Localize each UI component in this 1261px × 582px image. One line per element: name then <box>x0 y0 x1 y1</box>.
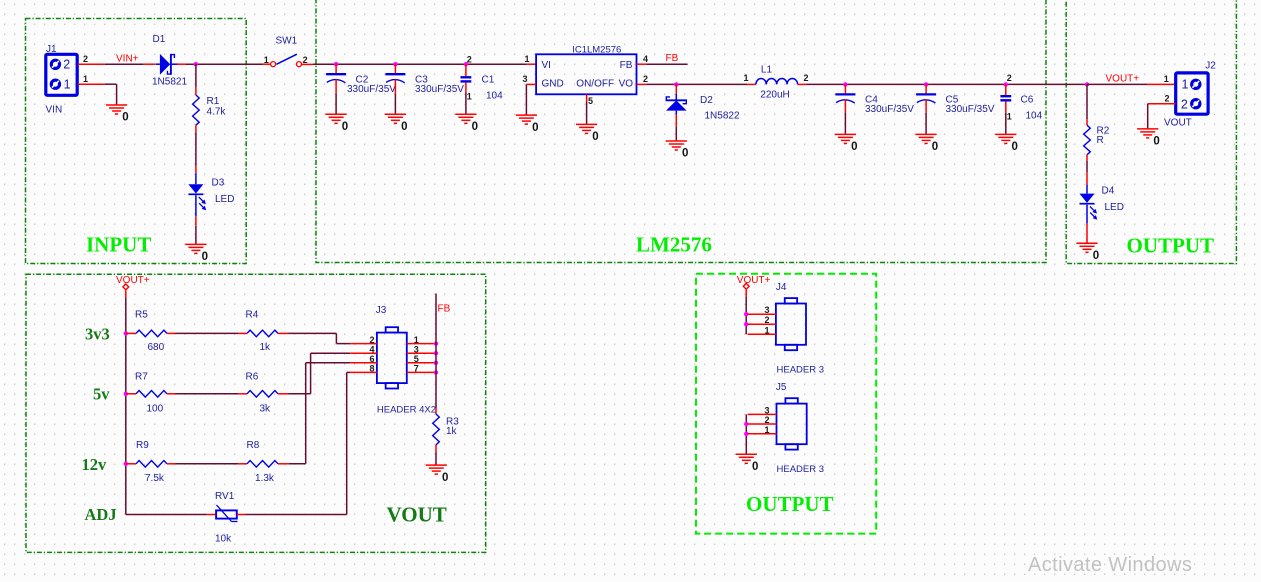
svg-text:1: 1 <box>64 77 71 91</box>
svg-text:100: 100 <box>147 404 164 415</box>
svg-text:1k: 1k <box>446 426 458 437</box>
resistor R6 <box>247 391 278 398</box>
J3 pin 2 stub <box>350 343 377 345</box>
svg-text:INPUT: INPUT <box>86 233 151 257</box>
svg-text:2: 2 <box>1181 97 1188 111</box>
ground (D3) <box>185 244 206 253</box>
resistor R9 <box>136 461 167 468</box>
inductor L1 <box>756 78 798 84</box>
svg-text:GND: GND <box>542 79 564 90</box>
svg-text:3: 3 <box>523 74 528 84</box>
resistor R7 <box>136 391 167 398</box>
svg-text:330uF/35V: 330uF/35V <box>347 84 396 95</box>
diode D1 1N5821 symbol <box>156 54 178 75</box>
ground (D2) <box>666 141 687 150</box>
wire C3 to ground <box>394 93 396 113</box>
svg-text:D3: D3 <box>212 177 225 188</box>
ground (C5) <box>916 134 937 143</box>
wire FB vertical <box>435 294 437 409</box>
junction (J3 pin 3) <box>434 351 438 355</box>
diode D2 anode stub <box>675 114 677 126</box>
svg-text:5v: 5v <box>93 385 110 404</box>
J3 pin 7 stub <box>407 371 436 373</box>
resistor R9 right stub <box>167 463 176 465</box>
wire C2 to ground <box>335 93 337 113</box>
J3 pin 3 stub <box>407 352 436 354</box>
svg-text:J1: J1 <box>46 44 57 55</box>
resistor R6 right stub <box>278 393 289 395</box>
power terminal VOUT+ (bottom middle) <box>743 283 749 289</box>
svg-text:HEADER 3: HEADER 3 <box>777 365 825 376</box>
J3 pin 6 stub <box>350 362 377 364</box>
wire VOUT+ to J4 <box>745 297 747 334</box>
LED D4 lower lead <box>1086 205 1088 224</box>
ground (J1) <box>106 105 127 114</box>
svg-text:0: 0 <box>442 472 448 484</box>
capacitor C2 top stub <box>335 64 337 73</box>
J5 pin 1 stub <box>748 433 777 435</box>
svg-text:2: 2 <box>643 74 648 84</box>
dashed region box OUTPUT top-right <box>1066 0 1236 264</box>
wire C6 to ground <box>1005 113 1007 134</box>
LED D4 bottom stub <box>1086 224 1088 243</box>
svg-text:7: 7 <box>414 364 419 374</box>
J4 pin 3 stub <box>748 313 776 315</box>
dashed region box LM2576 <box>316 0 1046 263</box>
op IC1 LM2576 body <box>536 54 636 94</box>
svg-text:0: 0 <box>851 141 857 153</box>
ground (C2) <box>326 114 347 123</box>
junction (C2) <box>334 62 338 66</box>
svg-text:J5: J5 <box>776 382 787 393</box>
svg-text:R7: R7 <box>135 372 148 383</box>
svg-text:2: 2 <box>764 415 769 425</box>
J1 pin 1 stub <box>78 83 105 85</box>
svg-text:VI: VI <box>542 60 551 71</box>
capacitor C2 bottom stub <box>335 79 337 93</box>
svg-text:12v: 12v <box>82 455 108 474</box>
svg-text:3v3: 3v3 <box>85 325 110 344</box>
svg-text:IC1LM2576: IC1LM2576 <box>572 44 621 55</box>
diode D2 1N5822 symbol <box>666 94 687 115</box>
switch SW1 blade <box>276 54 297 64</box>
pot RV1 right stub <box>237 514 246 516</box>
J2 pin 1 stub <box>1148 83 1176 85</box>
capacitor C4 bottom stub <box>844 99 846 112</box>
J3 pin 4 stub <box>350 352 377 354</box>
svg-text:4: 4 <box>643 54 648 64</box>
svg-text:5: 5 <box>588 96 593 106</box>
svg-text:1: 1 <box>1182 78 1189 92</box>
junction (C1) <box>464 62 468 66</box>
ground (D4) <box>1076 243 1097 252</box>
svg-text:R8: R8 <box>247 440 260 451</box>
connector J2 body <box>1176 73 1208 114</box>
LED D4 symbol <box>1080 194 1095 203</box>
svg-text:1: 1 <box>467 92 472 102</box>
connector J5 body <box>777 404 807 445</box>
wire R4 to J3 pin2 <box>289 333 351 343</box>
svg-text:D2: D2 <box>700 95 713 106</box>
svg-text:1: 1 <box>744 73 749 83</box>
svg-text:2: 2 <box>764 315 769 325</box>
svg-text:VOUT: VOUT <box>387 503 447 527</box>
resistor R1 bottom stub <box>195 125 197 132</box>
svg-text:1: 1 <box>525 54 530 64</box>
LED D3 top stub <box>195 166 197 174</box>
IC pin 4 stub <box>637 63 647 65</box>
resistor R3 bottom stub <box>435 445 437 452</box>
svg-text:J2: J2 <box>1205 60 1216 71</box>
svg-text:3: 3 <box>764 405 769 415</box>
capacitor C4 top stub <box>844 84 846 93</box>
IC pin 2 stub <box>637 83 647 85</box>
svg-text:D1: D1 <box>153 34 166 45</box>
svg-text:0: 0 <box>202 251 208 263</box>
svg-text:2: 2 <box>369 335 374 345</box>
capacitor C6 symbol <box>1000 95 1011 97</box>
svg-text:330uF/35V: 330uF/35V <box>415 84 464 95</box>
resistor R8 <box>247 461 278 468</box>
wire R8 to J3 pin6 <box>289 363 350 464</box>
svg-text:OUTPUT: OUTPUT <box>1127 234 1215 258</box>
svg-text:0: 0 <box>592 131 598 143</box>
capacitor C1 symbol <box>461 76 472 78</box>
junction (C4) <box>843 82 847 86</box>
dashed region box OUTPUT bottom-middle <box>696 274 876 534</box>
junction (J3 pin 1) <box>434 341 438 345</box>
junction node VIN+ / R1 tap <box>194 62 198 66</box>
junction (C3) <box>393 62 397 66</box>
capacitor C3 top stub <box>394 64 396 73</box>
svg-text:R: R <box>1097 135 1104 146</box>
wire J2.2 to ground <box>1147 104 1149 129</box>
junction (J3 pin 7) <box>434 370 438 374</box>
resistor R5 right stub <box>167 332 176 334</box>
svg-text:LED: LED <box>215 194 234 205</box>
svg-text:VO: VO <box>619 79 634 90</box>
svg-text:L1: L1 <box>761 65 773 76</box>
svg-text:RV1: RV1 <box>215 491 235 502</box>
LED D3 lower lead <box>195 195 197 216</box>
svg-text:104: 104 <box>1026 111 1043 122</box>
svg-text:FB: FB <box>666 53 679 64</box>
svg-text:VOUT+: VOUT+ <box>737 275 771 286</box>
connector J1 body <box>46 54 77 95</box>
wire VOUT+ vertical <box>125 298 127 515</box>
resistor R4 right stub <box>278 332 289 334</box>
svg-text:4.7k: 4.7k <box>207 106 227 117</box>
svg-text:VOUT: VOUT <box>1164 118 1192 129</box>
connector J3 body <box>377 333 407 384</box>
svg-text:1: 1 <box>414 335 419 345</box>
ground (C1) <box>455 114 476 123</box>
svg-text:LED: LED <box>1105 202 1124 213</box>
LED D3 lead <box>195 173 197 184</box>
J3 pin 5 stub <box>407 362 436 364</box>
wire down to R1 <box>195 64 197 88</box>
capacitor C1 bottom stub <box>465 83 467 93</box>
wire R5 to R4 <box>176 332 239 334</box>
svg-text:104: 104 <box>486 91 503 102</box>
resistor R5 <box>136 330 167 337</box>
svg-text:5: 5 <box>414 354 419 364</box>
svg-text:4: 4 <box>369 344 374 354</box>
wire D2 to ground <box>675 126 677 140</box>
dashed region box VOUT <box>26 274 486 552</box>
inductor L1 pin 2 stub <box>798 83 807 85</box>
connector J4 body <box>776 304 806 345</box>
wire VOUT+ down to R2 <box>1086 84 1088 119</box>
junction (J5 pin2) <box>744 422 748 426</box>
LED D4 lead <box>1086 185 1088 194</box>
resistor R1 top stub <box>195 88 197 95</box>
J5 pin 3 stub <box>748 413 777 415</box>
svg-text:1k: 1k <box>260 342 272 353</box>
resistor R1 <box>193 95 200 125</box>
resistor R3 <box>433 414 440 445</box>
svg-text:1N5821: 1N5821 <box>152 76 187 87</box>
ground (IC pin3) <box>516 115 537 124</box>
LED D3 bottom stub <box>195 216 197 226</box>
J3 pin 1 stub <box>407 343 436 345</box>
ground (R3) <box>426 465 447 474</box>
junction (J4 pin2) <box>744 322 748 326</box>
svg-text:0: 0 <box>401 121 407 133</box>
J4 pin 2 stub <box>748 323 776 325</box>
inductor L1 pin 1 stub <box>747 83 756 85</box>
junction (3v3 row) <box>124 331 128 335</box>
wire C4 to ground <box>844 113 846 134</box>
capacitor C3 bottom stub <box>394 79 396 93</box>
power terminal VOUT+ (bottom left) <box>123 284 129 290</box>
watermark Activate Windows <box>1028 554 1192 577</box>
wire C5 to ground <box>925 113 927 134</box>
LED D3 symbol <box>188 184 203 193</box>
capacitor C1 top stub <box>465 64 467 76</box>
svg-text:J3: J3 <box>376 305 387 316</box>
ground (J5) <box>736 454 757 463</box>
svg-text:FB: FB <box>438 304 451 315</box>
svg-text:D4: D4 <box>1102 185 1115 196</box>
svg-text:0: 0 <box>1093 250 1099 262</box>
wire R3 to ground <box>435 452 437 465</box>
IC pin 5 stub <box>586 94 588 101</box>
svg-text:R4: R4 <box>246 310 259 321</box>
diode D1 cathode stub <box>177 63 186 65</box>
switch SW1 terminal 2 <box>297 62 302 67</box>
svg-text:VIN: VIN <box>46 105 63 116</box>
IC pin 1 stub <box>527 63 536 65</box>
J2 pin 2 stub <box>1148 103 1176 105</box>
svg-text:680: 680 <box>148 342 165 353</box>
resistor R6 left stub <box>238 393 247 395</box>
switch SW1 pin 1 stub <box>263 63 271 65</box>
capacitor C5 symbol <box>916 93 936 95</box>
wire R2 to D4 <box>1086 161 1088 172</box>
svg-text:220uH: 220uH <box>760 90 789 101</box>
wire J5 vertical <box>745 414 747 453</box>
svg-text:ADJ: ADJ <box>85 505 117 524</box>
svg-text:R9: R9 <box>136 440 149 451</box>
diode D1 anode stub <box>144 63 155 65</box>
wire VOUT+ vertical stub <box>125 290 127 298</box>
J4 pin 1 stub <box>748 333 776 335</box>
wire pin5 to ground <box>586 102 588 124</box>
wire FB net <box>646 63 687 65</box>
svg-text:ON/OFF: ON/OFF <box>576 79 614 90</box>
svg-text:LM2576: LM2576 <box>636 233 712 257</box>
svg-text:J4: J4 <box>776 282 787 293</box>
svg-text:VOUT+: VOUT+ <box>1106 74 1140 85</box>
svg-text:330uF/35V: 330uF/35V <box>946 104 995 115</box>
wire J1.1 corner <box>105 84 117 104</box>
svg-text:2: 2 <box>83 54 88 64</box>
wire SW1 to input caps rail <box>313 63 527 65</box>
wire D3 to ground <box>195 226 197 244</box>
wire L1 to output caps <box>806 83 1087 85</box>
junction (J4 pin3) <box>744 312 748 316</box>
ground (C6) <box>995 134 1016 143</box>
resistor R8 right stub <box>278 463 289 465</box>
capacitor C4 symbol <box>835 93 855 95</box>
junction (J5 pin1) <box>744 432 748 436</box>
wire R9 to R8 <box>176 463 239 465</box>
resistor R4 <box>247 330 278 337</box>
switch SW1 terminal 1 <box>271 62 276 67</box>
svg-text:3: 3 <box>414 344 419 354</box>
svg-text:330uF/35V: 330uF/35V <box>865 104 914 115</box>
pot RV1 10k <box>216 510 237 518</box>
wire VOUT+ stub (J4) <box>745 290 747 297</box>
wire D1 to SW1 <box>186 63 263 65</box>
resistor R2 bottom stub <box>1086 155 1088 161</box>
wire R7 to R6 <box>176 393 239 395</box>
capacitor C6 top stub <box>1005 84 1007 95</box>
svg-text:0: 0 <box>122 112 128 124</box>
wire C1 to ground <box>465 92 467 113</box>
svg-text:R5: R5 <box>135 310 148 321</box>
svg-text:HEADER 4X2: HEADER 4X2 <box>377 404 436 415</box>
resistor R4 left stub <box>238 332 247 334</box>
resistor R2 top stub <box>1086 119 1088 125</box>
wire R6 to J3 pin4 <box>289 353 351 394</box>
svg-text:0: 0 <box>1012 141 1018 153</box>
svg-text:1.3k: 1.3k <box>255 473 275 484</box>
capacitor C2 symbol <box>326 73 346 75</box>
wire pin3 to ground <box>525 84 527 114</box>
svg-text:C6: C6 <box>1021 95 1034 106</box>
svg-text:7.5k: 7.5k <box>145 473 165 484</box>
svg-text:VOUT+: VOUT+ <box>116 275 150 286</box>
IC pin 3 stub <box>526 83 536 85</box>
svg-text:OUTPUT: OUTPUT <box>746 492 834 516</box>
resistor R2 <box>1084 125 1091 155</box>
wire ADJ to RV1 <box>126 514 207 516</box>
svg-text:2: 2 <box>63 58 70 72</box>
junction (VOUT+) <box>1085 82 1089 86</box>
wire R1 to D3 <box>195 132 197 165</box>
svg-text:6: 6 <box>369 354 374 364</box>
resistor R5 left stub <box>126 332 136 334</box>
svg-text:2: 2 <box>1007 73 1012 83</box>
switch SW1 output stub <box>302 63 313 65</box>
resistor R9 left stub <box>126 463 136 465</box>
wire J1.2 to D1 <box>105 63 144 65</box>
ground (IC pin5) <box>576 124 597 133</box>
svg-text:0: 0 <box>1153 136 1159 148</box>
svg-text:0: 0 <box>532 122 538 134</box>
svg-text:2: 2 <box>804 73 809 83</box>
svg-text:10k: 10k <box>215 534 232 545</box>
svg-text:VIN+: VIN+ <box>116 53 139 64</box>
LED D4 top stub <box>1086 172 1088 184</box>
svg-text:1: 1 <box>264 55 269 65</box>
junction (5v row) <box>124 392 128 396</box>
svg-text:R6: R6 <box>246 372 259 383</box>
svg-text:0: 0 <box>342 121 348 133</box>
wire RV1 to J3 pin8 <box>246 372 351 514</box>
svg-text:1: 1 <box>1164 74 1169 84</box>
svg-text:FB: FB <box>620 60 633 71</box>
capacitor C5 top stub <box>925 84 927 93</box>
svg-text:C1: C1 <box>482 75 495 86</box>
capacitor C5 bottom stub <box>925 99 927 112</box>
svg-text:1: 1 <box>1007 112 1012 122</box>
resistor R7 right stub <box>167 393 176 395</box>
svg-text:1: 1 <box>764 325 769 335</box>
ground (J2) <box>1137 129 1158 138</box>
ground (C3) <box>385 114 406 123</box>
J1 pin 2 stub <box>78 63 105 65</box>
dashed region box INPUT <box>26 19 247 264</box>
capacitor C3 symbol <box>385 73 405 75</box>
svg-text:1: 1 <box>764 425 769 435</box>
pot RV1 left stub <box>207 514 216 516</box>
junction (C6) <box>1004 82 1008 86</box>
svg-text:0: 0 <box>682 148 688 160</box>
junction (C5) <box>924 82 928 86</box>
junction (J3 pin 5) <box>434 361 438 365</box>
resistor R7 left stub <box>126 393 136 395</box>
svg-text:0: 0 <box>752 461 758 473</box>
svg-text:SW1: SW1 <box>276 36 298 47</box>
J5 pin 2 stub <box>748 423 777 425</box>
svg-text:2: 2 <box>303 55 308 65</box>
resistor R3 top stub <box>435 408 437 414</box>
wire to J2 pin1 <box>1087 83 1148 85</box>
resistor R8 left stub <box>238 463 247 465</box>
svg-text:0: 0 <box>932 141 938 153</box>
J3 pin 8 stub <box>350 371 377 373</box>
junction (D2) <box>674 82 678 86</box>
wire VO rail <box>646 83 747 85</box>
svg-text:0: 0 <box>472 121 478 133</box>
svg-text:8: 8 <box>369 364 374 374</box>
svg-text:1: 1 <box>83 74 88 84</box>
svg-text:2: 2 <box>467 54 472 64</box>
svg-text:1N5822: 1N5822 <box>705 111 740 122</box>
junction (12v row) <box>124 462 128 466</box>
ground (C4) <box>835 134 856 143</box>
svg-text:HEADER 3: HEADER 3 <box>777 464 825 475</box>
svg-text:2: 2 <box>1165 94 1170 104</box>
svg-text:3k: 3k <box>260 404 272 415</box>
diode D2 cathode stub <box>675 84 677 93</box>
svg-text:3: 3 <box>764 305 769 315</box>
capacitor C6 bottom stub <box>1005 102 1007 113</box>
